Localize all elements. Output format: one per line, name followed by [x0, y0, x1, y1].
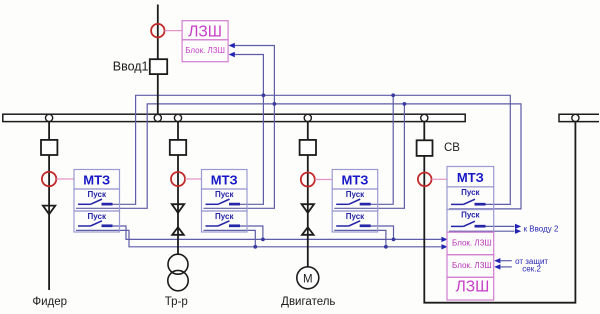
- wire: Тр-р column: [177, 122, 179, 255]
- wire: Тр-р Пуск2 contact drop to net K2: [240, 226, 263, 239]
- СВ Пуск 2 contact: [451, 221, 486, 226]
- arrow от защит сек.2 (upper): [494, 258, 500, 263]
- breaker Ввод1: [150, 59, 167, 74]
- junction dot 8: [384, 245, 388, 249]
- svg-text:Тр-р: Тр-р: [165, 296, 188, 308]
- wire: Тр-р second Пуск riser to ЛЗШ arrow (upper): [204, 46, 275, 209]
- wire CT Ввод1 to relay: [165, 30, 183, 32]
- wire: от защит сек.2 input 1: [501, 260, 512, 262]
- junction dot 5: [261, 238, 265, 242]
- СВ Пуск 1 contact: [451, 199, 486, 204]
- wire: net K2 lower bus (Пуск2 contacts to СВ Блок.ЛЗШ), y=239.4: [113, 226, 442, 239]
- busbar junction node 6: [572, 114, 579, 121]
- svg-text:СВ: СВ: [444, 142, 460, 154]
- svg-text:Пуск: Пуск: [88, 212, 107, 221]
- CT СВ: [418, 173, 432, 187]
- wire: Двигатель second Пуск riser to net S bus: [334, 104, 404, 208]
- transformer Тр-р winding 1: [168, 254, 188, 274]
- wire CT Двигатель to relay: [315, 179, 332, 181]
- busbar junction node 2: [154, 114, 161, 121]
- wire: Фидер column: [48, 122, 50, 290]
- busbar junction node 1: [46, 114, 53, 121]
- junction dot 6: [392, 238, 396, 242]
- breaker Фидер: [41, 140, 57, 155]
- arrow от защит сек.2 (lower): [494, 264, 500, 269]
- wire: от защит сек.2 input 2: [501, 266, 512, 268]
- breaker СВ: [417, 140, 433, 156]
- svg-text:ЛЗШ: ЛЗШ: [456, 278, 490, 295]
- wire: СВ column and tie to section 2 busbar: [424, 122, 575, 303]
- wire: Ввод1 incoming line: [157, 5, 159, 115]
- svg-text:Блок. ЛЗШ: Блок. ЛЗШ: [185, 46, 225, 55]
- wire: Двигатель Пуск2 second drop to net S2: [334, 230, 386, 246]
- wire: СВ Пуск2 contact to Ввод2 (к Вводу 2): [486, 225, 515, 227]
- CT Ввод1: [151, 24, 164, 37]
- Фидер Пуск 1 contact: [78, 199, 113, 204]
- wire: net S bus (second Пуск wires), horizontal bus y=103.9: [76, 104, 521, 209]
- wire: Тр-р Пуск1 riser to ЛЗШ arrow (lower): [234, 55, 263, 205]
- arrow into Ввод1 ЛЗШ blocking input 1: [229, 43, 235, 48]
- arrow into СВ Блок.ЛЗШ input 2: [441, 244, 447, 249]
- Двигатель МТЗ box outline: [332, 170, 378, 233]
- arrow к Вводу 2 (lower): [515, 229, 521, 234]
- arrow into СВ Блок.ЛЗШ input 1: [441, 237, 447, 242]
- Фидер Пуск 2 contact: [78, 221, 113, 226]
- Тр-р МТЗ box outline: [202, 170, 248, 233]
- Тр-р Пуск 2 contact: [206, 221, 241, 226]
- breaker Двигатель: [300, 140, 316, 155]
- op box СВ protection outline (МТЗ + ЛЗШ): [447, 167, 494, 301]
- svg-text:Пуск: Пуск: [215, 190, 234, 199]
- wire: Двигатель column: [307, 122, 309, 267]
- junction dot 2: [391, 93, 395, 97]
- wire CT Тр-р to relay: [185, 178, 202, 180]
- svg-text:сек.2: сек.2: [522, 264, 541, 273]
- CT Фидер: [42, 172, 56, 186]
- svg-text:Пуск: Пуск: [88, 190, 107, 199]
- svg-text:МТЗ: МТЗ: [341, 173, 368, 188]
- svg-text:МТЗ: МТЗ: [457, 170, 484, 185]
- load arrow Фидер: [43, 206, 55, 215]
- breaker Тр-р: [170, 140, 186, 155]
- arrow into Ввод1 ЛЗШ blocking input 2: [229, 52, 235, 57]
- Фидер МТЗ box outline: [74, 170, 120, 233]
- junction dot 7: [253, 245, 257, 249]
- Двигатель Пуск 2 contact: [336, 221, 371, 226]
- op box Ввод1 ЛЗШ outline: [182, 21, 228, 62]
- wire CT Фидер to relay: [56, 178, 74, 180]
- load arrow Двигатель (down): [302, 204, 314, 213]
- svg-text:Блок. ЛЗШ: Блок. ЛЗШ: [452, 261, 492, 270]
- Двигатель Пуск 1 contact: [336, 199, 371, 204]
- junction dot 1: [262, 93, 266, 97]
- svg-text:Пуск: Пуск: [346, 212, 365, 221]
- wire: Двигатель Пуск2 contact drop to net K2: [371, 226, 394, 239]
- busbar junction node 3: [174, 114, 181, 121]
- svg-text:Пуск: Пуск: [346, 190, 365, 199]
- svg-text:Пуск: Пуск: [215, 212, 234, 221]
- busbar junction node 5: [421, 114, 428, 121]
- svg-text:к Вводу 2: к Вводу 2: [524, 224, 559, 233]
- wire CT СВ to relay: [432, 178, 448, 180]
- svg-text:Блок. ЛЗШ: Блок. ЛЗШ: [452, 239, 492, 248]
- arrow к Вводу 2 (upper): [515, 224, 521, 229]
- motor Двигатель symbol: [297, 267, 319, 289]
- wire: СВ Пуск2 second to Ввод2: [449, 230, 515, 232]
- CT Двигатель: [301, 173, 315, 187]
- svg-text:Пуск: Пуск: [461, 188, 480, 197]
- transformer Тр-р winding 2: [168, 270, 188, 290]
- svg-text:Ввод1: Ввод1: [113, 60, 149, 74]
- Тр-р Пуск 1 contact: [206, 199, 241, 204]
- wire: Двигатель Пуск1 riser to net K bus: [371, 95, 394, 204]
- load arrow Двигатель (up): [302, 227, 314, 235]
- load arrow Тр-р (up): [172, 227, 184, 235]
- CT Тр-р: [171, 172, 185, 186]
- svg-text:Двигатель: Двигатель: [281, 296, 335, 308]
- svg-text:Фидер: Фидер: [32, 296, 67, 308]
- busbar junction node 4: [304, 114, 311, 121]
- junction dot 4: [403, 102, 407, 106]
- wire: Тр-р Пуск2 second drop to net S2: [204, 230, 256, 246]
- svg-text:Пуск: Пуск: [461, 211, 480, 220]
- svg-text:М: М: [303, 273, 313, 285]
- svg-text:ЛЗШ: ЛЗШ: [188, 24, 222, 41]
- busbar section 2: [559, 114, 599, 121]
- junction dot 3: [273, 102, 277, 106]
- svg-text:МТЗ: МТЗ: [83, 173, 110, 188]
- svg-text:МТЗ: МТЗ: [211, 173, 238, 188]
- busbar section 1: [3, 114, 465, 121]
- wire: net K bus (feeder Пуск contacts to Ввод1 ЛЗШ blocking), upper horizontal bus y=95.3: [113, 95, 511, 204]
- load arrow Тр-р (down): [172, 204, 184, 213]
- wire: net S2 lower bus (Пуск2 second wires to СВ Блок.ЛЗШ), y=246.8: [76, 230, 441, 246]
